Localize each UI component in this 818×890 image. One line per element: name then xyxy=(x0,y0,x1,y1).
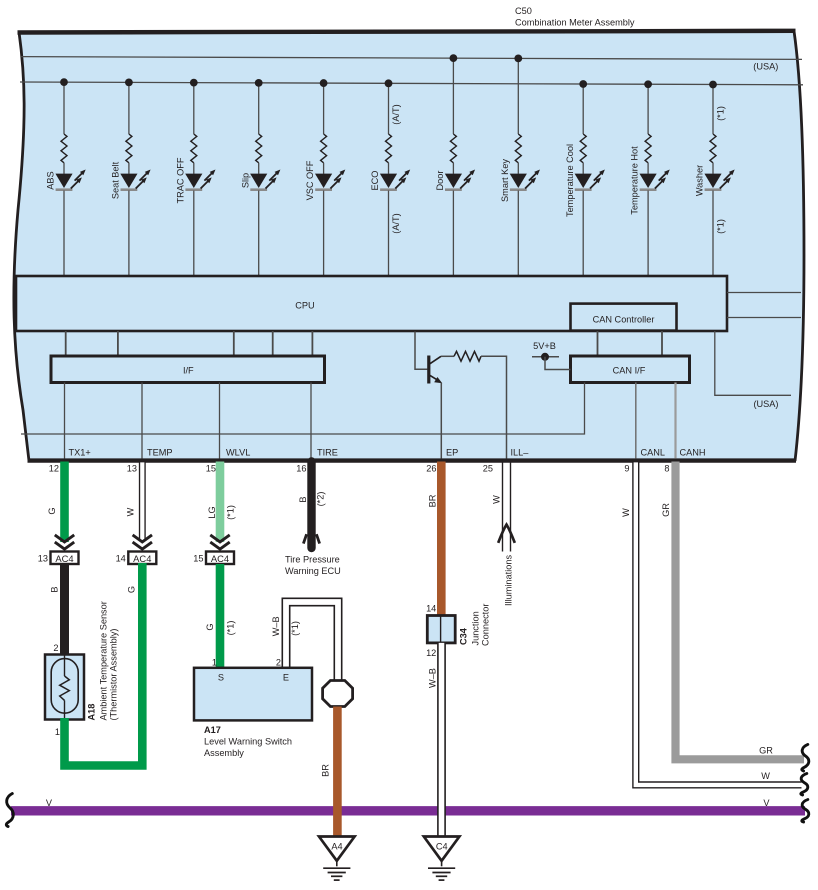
wire BR (EP pin 26, brown) xyxy=(437,462,446,618)
pin label CANH xyxy=(680,448,706,458)
pin number 26 xyxy=(426,464,436,474)
pin 1 of A18 xyxy=(55,727,60,737)
label G (TX1+) xyxy=(47,507,57,514)
svg-text:CANL: CANL xyxy=(641,448,666,458)
label Combination Meter Assembly xyxy=(515,17,635,27)
svg-text:CANH: CANH xyxy=(680,448,706,458)
transistor Q1 (NPN) xyxy=(427,356,442,384)
pin label CANL xyxy=(641,448,666,458)
pin 14 of C34 xyxy=(426,604,436,614)
wire W-B loop (A17 E to joint) xyxy=(286,602,338,682)
label V right xyxy=(763,798,770,808)
svg-text:Level Warning Switch: Level Warning Switch xyxy=(204,737,292,747)
pin 2 of A17 xyxy=(276,658,281,668)
resistor R1 (collector) xyxy=(454,351,481,361)
svg-text:LG: LG xyxy=(207,506,217,518)
label BR (to A4) xyxy=(321,764,331,777)
svg-text:26: 26 xyxy=(426,464,436,474)
indicator LED TRAC OFF with resistor xyxy=(175,79,215,276)
wire G loop A18 pin1 to AC4 14 (green) xyxy=(65,563,143,766)
internal bus line 2 (indicator row) xyxy=(20,82,803,85)
svg-text:VSC OFF: VSC OFF xyxy=(305,160,315,200)
svg-text:(USA): (USA) xyxy=(753,399,778,409)
arrow to AC4 (WLVL) xyxy=(210,535,229,549)
wire W-B (C34 to C4 ground) xyxy=(437,643,446,838)
label W-B (to C4) xyxy=(428,668,438,688)
svg-text:GR: GR xyxy=(661,503,671,517)
svg-text:V: V xyxy=(763,798,770,808)
pin label EP xyxy=(446,448,458,458)
svg-text:(A/T): (A/T) xyxy=(391,104,401,124)
pin label TX1+ xyxy=(69,448,91,458)
connector AC4 pin 15 xyxy=(193,552,234,565)
svg-text:9: 9 xyxy=(624,464,629,474)
label C34 xyxy=(459,627,469,645)
svg-text:W: W xyxy=(126,507,136,516)
svg-text:Smart Key: Smart Key xyxy=(500,159,510,202)
svg-text:12: 12 xyxy=(49,464,59,474)
svg-text:2: 2 xyxy=(53,643,58,653)
arrow illuminations xyxy=(498,525,515,543)
svg-text:(*1): (*1) xyxy=(716,106,726,121)
label Level Warning Switch xyxy=(204,737,292,747)
svg-text:Door: Door xyxy=(435,171,445,191)
svg-text:Connector: Connector xyxy=(481,604,491,646)
svg-text:CPU: CPU xyxy=(295,301,314,311)
svg-text:WLVL: WLVL xyxy=(226,448,250,458)
arrow to AC4 (TX1+) xyxy=(55,535,74,549)
break symbol V right xyxy=(802,800,809,822)
svg-text:S: S xyxy=(218,672,224,682)
svg-text:(Thermistor Assembly): (Thermistor Assembly) xyxy=(109,629,119,721)
pin label ILL&#8211; xyxy=(511,448,530,458)
label W (CANL vertical) xyxy=(621,508,631,517)
pin label TEMP xyxy=(147,448,173,458)
svg-text:1: 1 xyxy=(212,658,217,668)
label BR (EP) xyxy=(428,494,438,507)
wire CANL internal xyxy=(635,383,637,459)
wire CPU to I/F at x=65.7 xyxy=(65,331,67,356)
svg-text:(USA): (USA) xyxy=(753,62,778,72)
svg-text:E: E xyxy=(283,672,289,682)
wire transistor emitter to EP pin xyxy=(440,383,442,459)
svg-text:G: G xyxy=(205,623,215,630)
wire CPU to I/F at x=312.4 xyxy=(311,331,313,356)
svg-text:C4: C4 xyxy=(436,842,448,852)
indicator LED Door with resistor xyxy=(435,54,475,276)
label G (to A17) xyxy=(205,623,215,630)
label (USA) top right xyxy=(753,62,778,72)
indicator LED Temperature Hot with resistor xyxy=(630,80,670,276)
wire CAN Controller to CAN I/F (left) xyxy=(597,331,599,356)
label LG (WLVL) xyxy=(207,506,217,518)
svg-text:CAN Controller: CAN Controller xyxy=(593,315,655,325)
indicator LED ECO with resistor xyxy=(370,79,410,276)
wire B (TIRE pin 16, black) xyxy=(307,462,315,549)
CAN I/F box xyxy=(571,356,690,383)
ground bus V (purple) xyxy=(11,806,805,815)
indicator LED Slip with resistor xyxy=(240,79,280,276)
arrow to AC4 (TEMP) xyxy=(133,535,152,549)
svg-text:AC4: AC4 xyxy=(133,553,151,564)
svg-text:TIRE: TIRE xyxy=(317,448,338,458)
svg-text:W–B: W–B xyxy=(428,668,438,688)
wire CPU to I/F at x=117.9 xyxy=(117,331,119,356)
label V left xyxy=(46,798,53,808)
label (*1) A17 E xyxy=(290,621,300,636)
label A17 xyxy=(204,725,221,735)
svg-text:ECO: ECO xyxy=(370,171,380,191)
label W (TEMP) xyxy=(126,507,136,516)
pin number 8 xyxy=(664,464,669,474)
svg-text:B: B xyxy=(298,496,308,502)
svg-text:TRAC OFF: TRAC OFF xyxy=(175,157,185,203)
label GR (CANH vertical) xyxy=(661,503,671,517)
label Connector xyxy=(481,604,491,646)
wire 5V+B to CAN I/F xyxy=(545,357,571,370)
ambient temperature sensor A18 (thermistor) xyxy=(45,655,84,720)
svg-text:ILL–: ILL– xyxy=(511,448,530,458)
svg-text:TEMP: TEMP xyxy=(147,448,173,458)
label GR (CANH right) xyxy=(759,745,773,755)
svg-text:Seat Belt: Seat Belt xyxy=(111,161,121,199)
label B (TIRE) xyxy=(298,496,308,502)
wire I/F to pin at x=64.5 xyxy=(64,383,66,459)
label G (below AC4 14) xyxy=(127,586,137,593)
break symbol CANH right xyxy=(802,744,809,771)
svg-text:Temperature Hot: Temperature Hot xyxy=(630,146,640,215)
break symbol V left xyxy=(6,794,13,827)
wire CAN I/F to internal bus (y=434) xyxy=(21,383,585,435)
svg-text:TX1+: TX1+ xyxy=(69,448,91,458)
wire CPU to I/F at x=272.7 xyxy=(272,331,274,356)
pin number 25 xyxy=(483,464,493,474)
combination meter assembly shield box C50 (body) xyxy=(14,31,804,461)
svg-text:Assembly: Assembly xyxy=(204,748,244,758)
svg-text:15: 15 xyxy=(206,464,216,474)
svg-text:1: 1 xyxy=(55,727,60,737)
label C50 xyxy=(515,6,532,16)
svg-text:C34: C34 xyxy=(459,627,469,645)
svg-text:V: V xyxy=(46,798,53,808)
CPU box xyxy=(16,276,727,331)
svg-text:Ambient Temperature Sensor: Ambient Temperature Sensor xyxy=(99,601,109,720)
indicator LED VSC OFF with resistor xyxy=(305,79,345,276)
indicator LED Temperature Cool with resistor xyxy=(565,80,605,276)
svg-text:W: W xyxy=(761,771,770,781)
internal bus line 1 (USA row) xyxy=(21,57,802,60)
label A18 xyxy=(87,704,97,721)
indicator LED Smart Key with resistor xyxy=(500,54,540,276)
svg-text:A4: A4 xyxy=(331,842,342,852)
wire BR (joint to A4 ground, brown) xyxy=(333,707,342,839)
label 5V+B xyxy=(533,341,556,351)
svg-text:Junction: Junction xyxy=(470,611,480,645)
break symbol CANL right xyxy=(801,773,808,795)
svg-text:G: G xyxy=(127,586,137,593)
svg-text:8: 8 xyxy=(664,464,669,474)
wire CPU to I/F at x=233.8 xyxy=(233,331,235,356)
pin number 12 xyxy=(49,464,59,474)
svg-text:16: 16 xyxy=(296,464,306,474)
label W (ILL-) xyxy=(492,495,502,504)
wire I/F to pin at x=142 xyxy=(141,383,143,459)
indicator LED Seat Belt with resistor xyxy=(111,78,151,276)
svg-text:I/F: I/F xyxy=(183,366,194,376)
label Ambient Temperature Sensor xyxy=(99,601,109,720)
label (*1) WLVL xyxy=(226,505,236,520)
wire GR (CANH pin 8, gray) xyxy=(676,462,805,760)
junction connector C34 xyxy=(427,616,455,643)
svg-text:AC4: AC4 xyxy=(211,553,229,564)
svg-text:GR: GR xyxy=(759,745,773,755)
wire CANH internal xyxy=(674,383,676,459)
svg-text:C50: C50 xyxy=(515,6,532,16)
wire B (AC4 13 to A18, black) xyxy=(60,564,69,656)
connector AC4 pin 13 xyxy=(38,552,79,565)
svg-text:2: 2 xyxy=(276,658,281,668)
svg-text:W–B: W–B xyxy=(271,616,281,636)
ground C4 xyxy=(424,837,460,881)
wire G (TX1+ pin 12, green) xyxy=(60,462,69,543)
svg-text:AC4: AC4 xyxy=(55,553,73,564)
wire CPU to transistor base xyxy=(415,332,427,370)
svg-text:B: B xyxy=(50,586,60,592)
wire I/F to pin at x=311 xyxy=(310,383,312,459)
svg-text:ABS: ABS xyxy=(46,171,56,189)
pin number 13 xyxy=(127,464,137,474)
pin number 15 xyxy=(206,464,216,474)
wire I/F to pin at x=219.5 xyxy=(219,383,221,459)
svg-text:Washer: Washer xyxy=(695,165,705,196)
svg-text:W: W xyxy=(621,508,631,517)
pin number 9 xyxy=(624,464,629,474)
svg-text:Temperature Cool: Temperature Cool xyxy=(565,144,575,217)
ground A4 xyxy=(319,837,355,881)
pin 1 of A17 xyxy=(212,658,217,668)
svg-text:5V+B: 5V+B xyxy=(533,341,556,351)
label (USA) bottom right xyxy=(753,399,778,409)
pin number 16 xyxy=(296,464,306,474)
CAN Controller box xyxy=(571,304,677,331)
label (*1) to A17 xyxy=(225,621,235,636)
node 5V+B rail xyxy=(532,353,559,361)
svg-text:(A/T): (A/T) xyxy=(391,213,401,233)
label Junction xyxy=(470,611,480,645)
svg-text:13: 13 xyxy=(127,464,137,474)
pin 12 of C34 xyxy=(426,648,436,658)
svg-text:14: 14 xyxy=(426,604,436,614)
svg-text:Illuminations: Illuminations xyxy=(503,555,513,606)
level warning switch A17 xyxy=(194,668,312,721)
svg-text:Combination Meter Assembly: Combination Meter Assembly xyxy=(515,17,635,27)
label Illuminations xyxy=(503,555,513,606)
wire CPU bottom to right edge (USA) xyxy=(715,331,791,395)
svg-text:EP: EP xyxy=(446,448,458,458)
svg-text:Warning ECU: Warning ECU xyxy=(285,566,341,576)
svg-text:14: 14 xyxy=(116,554,126,564)
arrow into tire wire xyxy=(303,534,319,543)
svg-text:A17: A17 xyxy=(204,725,221,735)
wire CPU right stub 2 xyxy=(727,317,801,319)
pin label TIRE xyxy=(317,448,338,458)
label (*2) TIRE xyxy=(316,492,326,507)
svg-text:Slip: Slip xyxy=(240,173,250,188)
label Assembly xyxy=(204,748,244,758)
label Tire Pressure Warning ECU xyxy=(285,555,341,577)
svg-text:(*1): (*1) xyxy=(290,621,300,636)
wire W (TEMP pin 13, white) xyxy=(139,462,146,540)
joint connector (octagon) xyxy=(323,681,353,707)
label B (to A18) xyxy=(50,586,60,592)
svg-text:12: 12 xyxy=(426,648,436,658)
wire CPU right stub 1 xyxy=(727,292,801,294)
svg-text:(*1): (*1) xyxy=(225,621,235,636)
pin 2 of A18 xyxy=(53,643,58,653)
svg-text:W: W xyxy=(492,495,502,504)
wire transistor collector to resistor xyxy=(441,355,454,357)
label W (CANL right) xyxy=(761,771,770,781)
svg-text:(*1): (*1) xyxy=(226,505,236,520)
indicator LED ABS with resistor xyxy=(46,78,86,276)
indicator LED Washer with resistor xyxy=(695,81,735,276)
svg-text:CAN I/F: CAN I/F xyxy=(613,366,646,376)
svg-text:13: 13 xyxy=(38,554,48,564)
svg-text:G: G xyxy=(47,507,57,514)
wire W (CANL pin 9, white) xyxy=(636,462,802,785)
wire resistor to ILL- pin xyxy=(481,356,507,458)
connector AC4 pin 14 xyxy=(116,552,157,565)
svg-text:BR: BR xyxy=(428,494,438,507)
svg-text:Tire Pressure: Tire Pressure xyxy=(285,555,340,565)
svg-text:15: 15 xyxy=(193,554,203,564)
wire LG (WLVL pin 15, light green) xyxy=(216,462,225,543)
svg-text:A18: A18 xyxy=(87,704,97,721)
wire G (AC4 15 to A17 S, green) xyxy=(216,564,225,668)
wire CAN Controller to CAN I/F (right) xyxy=(661,331,663,356)
pin label WLVL xyxy=(226,448,250,458)
svg-text:(*2): (*2) xyxy=(316,492,326,507)
svg-text:BR: BR xyxy=(321,764,331,777)
wire W (ILL- pin 25, white) xyxy=(503,462,511,551)
I/F box xyxy=(51,356,325,383)
svg-text:(*1): (*1) xyxy=(716,219,726,234)
svg-text:25: 25 xyxy=(483,464,493,474)
label (Thermistor Assembly) xyxy=(109,629,119,721)
label W-B (A17) xyxy=(271,616,281,636)
